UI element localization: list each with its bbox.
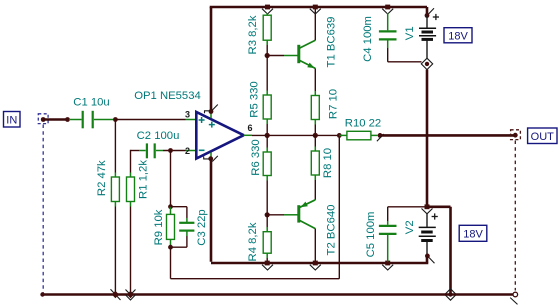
wire R1 top corner to C2: [131, 150, 140, 173]
node R6/R4/T2 base: [265, 212, 270, 217]
node R7/R8 output row: [313, 133, 318, 138]
svg-text:R1 1,2k: R1 1,2k: [138, 160, 150, 199]
svg-text:R7 10: R7 10: [328, 89, 340, 119]
node op-amp output / R5 / R6: [265, 133, 270, 138]
wire output row: [244, 134, 340, 136]
capacitor C4: [362, 13, 397, 62]
junction diamond ground return: [445, 289, 456, 300]
node ground rail end: [510, 292, 517, 304]
resistor R1: [127, 160, 150, 207]
battery V1: [404, 7, 439, 58]
svg-text:C5 100m: C5 100m: [365, 212, 377, 258]
svg-text:V2: V2: [404, 220, 416, 234]
wire node down to R2: [114, 120, 116, 173]
node R10 right: [377, 133, 384, 141]
node supply midpoint: [422, 204, 433, 213]
svg-text:18V: 18V: [463, 229, 483, 241]
wire C4 bottom to V1 minus: [388, 48, 422, 62]
junction ground rail / R1: [126, 290, 136, 301]
svg-text:R3 8,2k: R3 8,2k: [247, 15, 259, 54]
wire top rail: [210, 6, 427, 9]
svg-text:R10 22: R10 22: [345, 117, 381, 129]
resistor R4: [247, 215, 271, 262]
svg-text:R4 8,2k: R4 8,2k: [247, 222, 259, 261]
wire feedback path (R9 bottom to output tap): [171, 135, 340, 278]
capacitor C1: [69, 97, 113, 129]
wire OUT line: [380, 134, 515, 137]
svg-text:C2 100u: C2 100u: [137, 130, 180, 142]
node R9/C3 top: [168, 204, 173, 209]
transistor T2 BC640: [299, 200, 338, 256]
capacitor C2: [137, 130, 180, 159]
junction mid rail / R4: [262, 261, 273, 270]
label 18V (V1): [444, 28, 472, 43]
wire R7 to output row: [314, 125, 316, 136]
wire R6 to node: [266, 181, 268, 215]
svg-text:C1 10u: C1 10u: [73, 97, 109, 109]
node pin2 / feedback: [168, 148, 173, 153]
svg-text:R5 330: R5 330: [248, 81, 260, 117]
wire feedback node down to R9: [170, 151, 172, 207]
wire T1 emitter to R7: [314, 68, 316, 91]
junction diamond V1 minus: [421, 58, 432, 69]
node OUT (selection box): [511, 130, 521, 140]
svg-text:3: 3: [185, 109, 190, 119]
node C1/R2: [113, 117, 118, 122]
resistor R5: [248, 56, 271, 125]
wire midpoint to ground return: [427, 207, 451, 293]
wire R1 to ground rail: [130, 207, 132, 292]
capacitor C3 (parallel loop): [171, 207, 209, 248]
junction mid rail / T2: [310, 261, 321, 270]
label 18V (V2): [459, 225, 487, 241]
wire V1 minus down to supply midpoint: [426, 70, 429, 207]
wire R8 to T2 emitter: [314, 180, 316, 200]
svg-text:C4 100m: C4 100m: [362, 16, 374, 62]
svg-text:C3 22p: C3 22p: [196, 209, 208, 245]
node IN (selection box): [38, 114, 48, 124]
wire OUT to ground (dashed): [514, 141, 516, 291]
svg-text:IN: IN: [6, 115, 17, 127]
junction mid rail / C5: [382, 261, 393, 270]
svg-text:6: 6: [248, 123, 253, 133]
svg-text:R6 330: R6 330: [250, 139, 262, 175]
svg-text:V1: V1: [404, 26, 416, 40]
wire midpoint to C5: [388, 207, 427, 221]
node R3/R5/T1 base: [265, 53, 270, 58]
resistor R6: [250, 135, 271, 180]
wire mid (negative supply) rail: [211, 262, 428, 265]
battery V2: [404, 213, 438, 263]
node feedback tap on output row: [337, 133, 342, 138]
wire R5 to output node: [266, 124, 268, 135]
resistor R9: [153, 207, 175, 248]
svg-text:R2 47k: R2 47k: [96, 160, 108, 196]
wire T2 collector to mid rail: [314, 229, 316, 262]
svg-text:OP1 NE5534: OP1 NE5534: [134, 90, 201, 102]
port label OUT: [528, 128, 557, 144]
junction top rail / T1: [310, 5, 321, 14]
capacitor C5: [365, 212, 397, 262]
wire node to T2 base: [267, 214, 297, 216]
resistor R10: [339, 117, 381, 140]
wire C2 to op-amp pin 2: [163, 150, 197, 152]
wire IN to C1: [43, 117, 70, 122]
wire R4 to mid rail: [266, 258, 268, 262]
svg-text:R9 10k: R9 10k: [153, 209, 165, 245]
node R9/C3 bottom: [168, 245, 173, 250]
wire R3 to node: [266, 45, 268, 56]
transistor T1 BC639: [299, 17, 338, 69]
wire op-amp V- supply: [204, 156, 218, 262]
junction ground rail / R2: [111, 289, 121, 300]
resistor R8: [311, 135, 334, 180]
svg-text:R8 10: R8 10: [322, 148, 334, 178]
wire R2 to ground rail: [114, 207, 116, 292]
svg-text:2: 2: [185, 146, 190, 156]
resistor R7: [311, 89, 339, 125]
svg-text:18V: 18V: [448, 31, 468, 43]
junction top rail / C4: [382, 5, 393, 14]
svg-text:OUT: OUT: [531, 131, 555, 143]
wire ground rail: [40, 292, 512, 296]
wire T1 collector to top rail: [314, 9, 316, 40]
junction top rail / R3: [262, 5, 273, 14]
wire IN to ground (dashed): [42, 125, 44, 293]
resistor R3: [247, 13, 271, 54]
svg-text:T1 BC639: T1 BC639: [326, 17, 338, 68]
wire op-amp V+ supply: [205, 7, 218, 114]
svg-text:T2 BC640: T2 BC640: [326, 205, 338, 256]
wire C1 node to op-amp pin 3: [115, 119, 196, 121]
wire node to T1 base: [267, 55, 297, 57]
resistor R2: [96, 160, 119, 207]
op-amp OP1 NE5534: [134, 90, 252, 159]
port IN: [4, 112, 21, 128]
